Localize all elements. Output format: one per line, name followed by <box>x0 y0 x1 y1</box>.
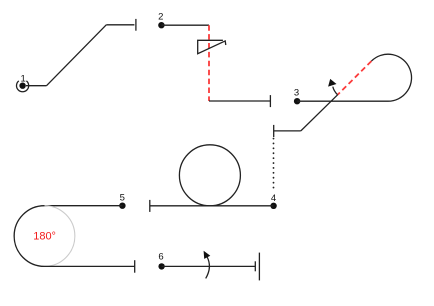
figure 2 end tick <box>269 95 271 107</box>
figure 1 start dot <box>19 83 25 89</box>
figure 1 end tick <box>135 19 137 31</box>
figure 3 end tick <box>273 125 275 137</box>
svg-text:4: 4 <box>271 193 276 204</box>
figure 2 inverted vertical down line (red dashed) <box>208 25 210 101</box>
figure 5 end tick <box>134 260 136 273</box>
figure 3 half roll arrow shaft <box>333 87 338 95</box>
svg-text:3: 3 <box>294 88 299 99</box>
figure 4 loop circle <box>179 145 240 206</box>
figure 5 exit wire <box>45 265 135 267</box>
figure 6 quarter roll arrow shaft <box>206 257 210 279</box>
figure 6 end tick <box>254 261 256 271</box>
figure 6 quarter roll arrowhead <box>204 251 211 259</box>
svg-text:180°: 180° <box>33 231 56 243</box>
repositioning dotted connector <box>273 139 275 190</box>
figure 3 loop arc <box>371 54 411 101</box>
figure 1 45-degree up wire <box>47 25 107 86</box>
figure 3 start dot <box>294 98 300 104</box>
figure 2 start dot <box>158 22 164 28</box>
figure 4 end tick <box>149 200 151 212</box>
svg-text:5: 5 <box>120 193 125 204</box>
sequence end bar <box>258 253 260 281</box>
figure 4 base wire <box>150 205 274 207</box>
figure 1 start circle (open at top) <box>16 81 28 92</box>
figure 3 half roll arrowhead <box>328 79 336 87</box>
figure 4 start dot <box>270 203 276 209</box>
figure 5 ghost turn circle (grey) <box>14 206 75 267</box>
svg-text:6: 6 <box>158 252 163 263</box>
figure 3 45-degree down wire <box>301 95 338 131</box>
figure 3 exit wire <box>274 130 301 132</box>
figure 1 exit wire <box>106 24 134 26</box>
figure 5 entry wire <box>45 205 123 207</box>
figure 3 entry wire <box>297 100 388 102</box>
figure 5 180-degree turn arc <box>14 206 44 267</box>
figure 6 base wire <box>162 265 256 267</box>
figure 2 entry wire <box>161 24 209 26</box>
figure 2 spin symbol <box>198 40 226 53</box>
figure 1 entry wire <box>26 85 47 87</box>
figure 3 inverted 45-degree down line (red dashed) <box>338 61 372 95</box>
svg-text:2: 2 <box>158 12 163 23</box>
figure 6 start dot <box>158 263 164 269</box>
figure 5 start dot <box>119 203 125 209</box>
figure 2 exit wire <box>209 100 270 102</box>
